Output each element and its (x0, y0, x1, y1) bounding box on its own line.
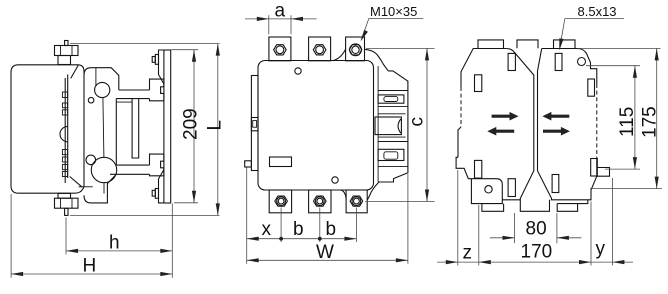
stem below bottom pivot (103, 183, 105, 194)
edge between arms (115, 99, 117, 166)
pole 1 left tab (456, 157, 471, 178)
ext lines x b b (280, 208, 282, 243)
coil housing body (11, 65, 84, 193)
main case (258, 61, 374, 191)
ext lines 80 (514, 213, 516, 243)
bottom terminal 3 (346, 190, 367, 213)
pole 1 left lower edge (458, 127, 461, 157)
rail top bolt plate (159, 50, 164, 84)
profile shelf lines (378, 90, 408, 92)
arm underside line (116, 101, 132, 103)
pole 2 foot shelf (557, 200, 588, 204)
dim line z 170 y (437, 261, 633, 263)
ext line h/H right (171, 204, 173, 278)
small hole top (88, 97, 94, 103)
ext lines a (268, 15, 270, 34)
pole 1 arrow left (487, 127, 514, 136)
mounting rail (164, 50, 171, 203)
bottom arm (116, 164, 149, 166)
pole 2 arrow left (542, 112, 569, 121)
ext line h left (65, 218, 67, 255)
svg-text:W: W (316, 242, 334, 263)
side window (375, 117, 401, 135)
ext line H left (10, 194, 12, 278)
svg-text:b: b (326, 219, 337, 240)
svg-text:z: z (463, 243, 473, 264)
dim line 115 (634, 66, 636, 169)
pole 1 slots (475, 75, 482, 92)
pole 1 outline top-left (461, 49, 506, 88)
ext line 209 bottom (174, 202, 198, 204)
dim line 209 (193, 50, 195, 203)
pole 2 top edge (542, 49, 597, 85)
svg-text:c: c (407, 117, 428, 127)
ext line 209 top (172, 49, 199, 51)
pole 2 foot (557, 204, 577, 212)
center foot (520, 200, 549, 212)
aux block top (378, 95, 404, 103)
body bottom bevel edge (70, 177, 83, 188)
dim line x b b (247, 238, 357, 240)
pole 2 slots (555, 53, 562, 70)
ext line 175 top (577, 47, 660, 49)
bracket shelf (79, 186, 93, 188)
armature channel (132, 99, 139, 158)
ext line 115 bottom (605, 168, 640, 170)
svg-text:H: H (83, 256, 97, 277)
dome sweep right of T3 (365, 49, 389, 71)
svg-text:L: L (205, 120, 226, 131)
top arm (119, 89, 150, 91)
pole 1 right edge (502, 49, 534, 200)
svg-text:a: a (275, 1, 286, 22)
aux block bottom (378, 149, 404, 160)
nameplate (270, 157, 292, 167)
pole 2 corner hole (578, 58, 586, 66)
pole 2 top tab b (554, 40, 576, 48)
top terminal 3 with M10 bolt (346, 37, 365, 61)
svg-text:h: h (109, 233, 120, 254)
svg-text:M10×35: M10×35 (370, 4, 417, 19)
pole 1 foot (482, 204, 504, 212)
link between pivots (103, 98, 104, 158)
pole 1 arrow right (492, 112, 519, 121)
bracket vertical to top circle (95, 68, 97, 86)
small hole bottom (86, 155, 96, 165)
pivot circle bottom (91, 157, 116, 182)
ext line 115 top (586, 65, 640, 67)
dim line L (217, 44, 219, 216)
side bump semicircle (60, 126, 68, 141)
dim line c (426, 48, 428, 201)
pole 1 top tab (478, 40, 504, 48)
bracket bottom portion (84, 174, 116, 203)
case screw bottom (332, 177, 338, 183)
terminal tabs on strip (62, 92, 67, 98)
dome fillet left of T3 (333, 49, 346, 61)
case screw top (295, 68, 301, 74)
dim line h (66, 250, 172, 252)
pole 1 hidden edge (460, 87, 462, 127)
lamination strip (64, 78, 66, 183)
svg-text:x: x (262, 219, 272, 240)
svg-text:170: 170 (521, 242, 553, 263)
ext lines z 170 y (457, 170, 459, 266)
bracket top portion (84, 68, 119, 90)
ext line L top (70, 43, 220, 45)
svg-text:8.5x13: 8.5x13 (578, 4, 617, 19)
dim line 80 tails (490, 237, 515, 239)
top rail clamp (150, 79, 164, 101)
small lead tab (245, 161, 252, 167)
svg-text:209: 209 (181, 108, 202, 140)
svg-text:115: 115 (617, 107, 638, 137)
dim line 175 (656, 48, 658, 188)
rail bottom bolt plate (159, 170, 164, 203)
ext lines c (366, 47, 435, 49)
pole 1 mounting lug (471, 179, 502, 204)
bottom terminal 1 (269, 190, 291, 213)
lower terminal tabs (62, 150, 67, 155)
pivot circle top (95, 82, 110, 97)
top terminal 1 (269, 37, 291, 61)
top bolt (55, 41, 79, 65)
ext line 175 bottom (590, 188, 662, 190)
pole 2 hidden edge (596, 84, 598, 157)
pole 2 arrow right (543, 127, 570, 136)
bottom terminal 2 (309, 190, 331, 213)
top terminal 2 (309, 37, 331, 61)
dome fillet left of T3 bottom (341, 190, 347, 200)
svg-text:y: y (596, 239, 606, 260)
svg-text:80: 80 (526, 219, 547, 240)
bottom rail clamp (150, 154, 164, 176)
pole 2 top tab a (517, 40, 538, 48)
dim line a (245, 18, 317, 20)
ext line W right (407, 174, 409, 264)
ext line L bottom (70, 214, 220, 216)
left mounting tab (251, 76, 258, 171)
pole 2 left edge (538, 49, 597, 200)
ext line W left (246, 168, 248, 264)
svg-text:b: b (293, 219, 304, 240)
bottom bolt (55, 193, 79, 215)
dim line W (247, 259, 408, 261)
svg-text:175: 175 (640, 106, 661, 138)
pole 2 right tab (597, 168, 610, 177)
dim line H (11, 273, 172, 275)
right side profile outline (367, 71, 408, 200)
body top bevel edge (71, 65, 79, 78)
